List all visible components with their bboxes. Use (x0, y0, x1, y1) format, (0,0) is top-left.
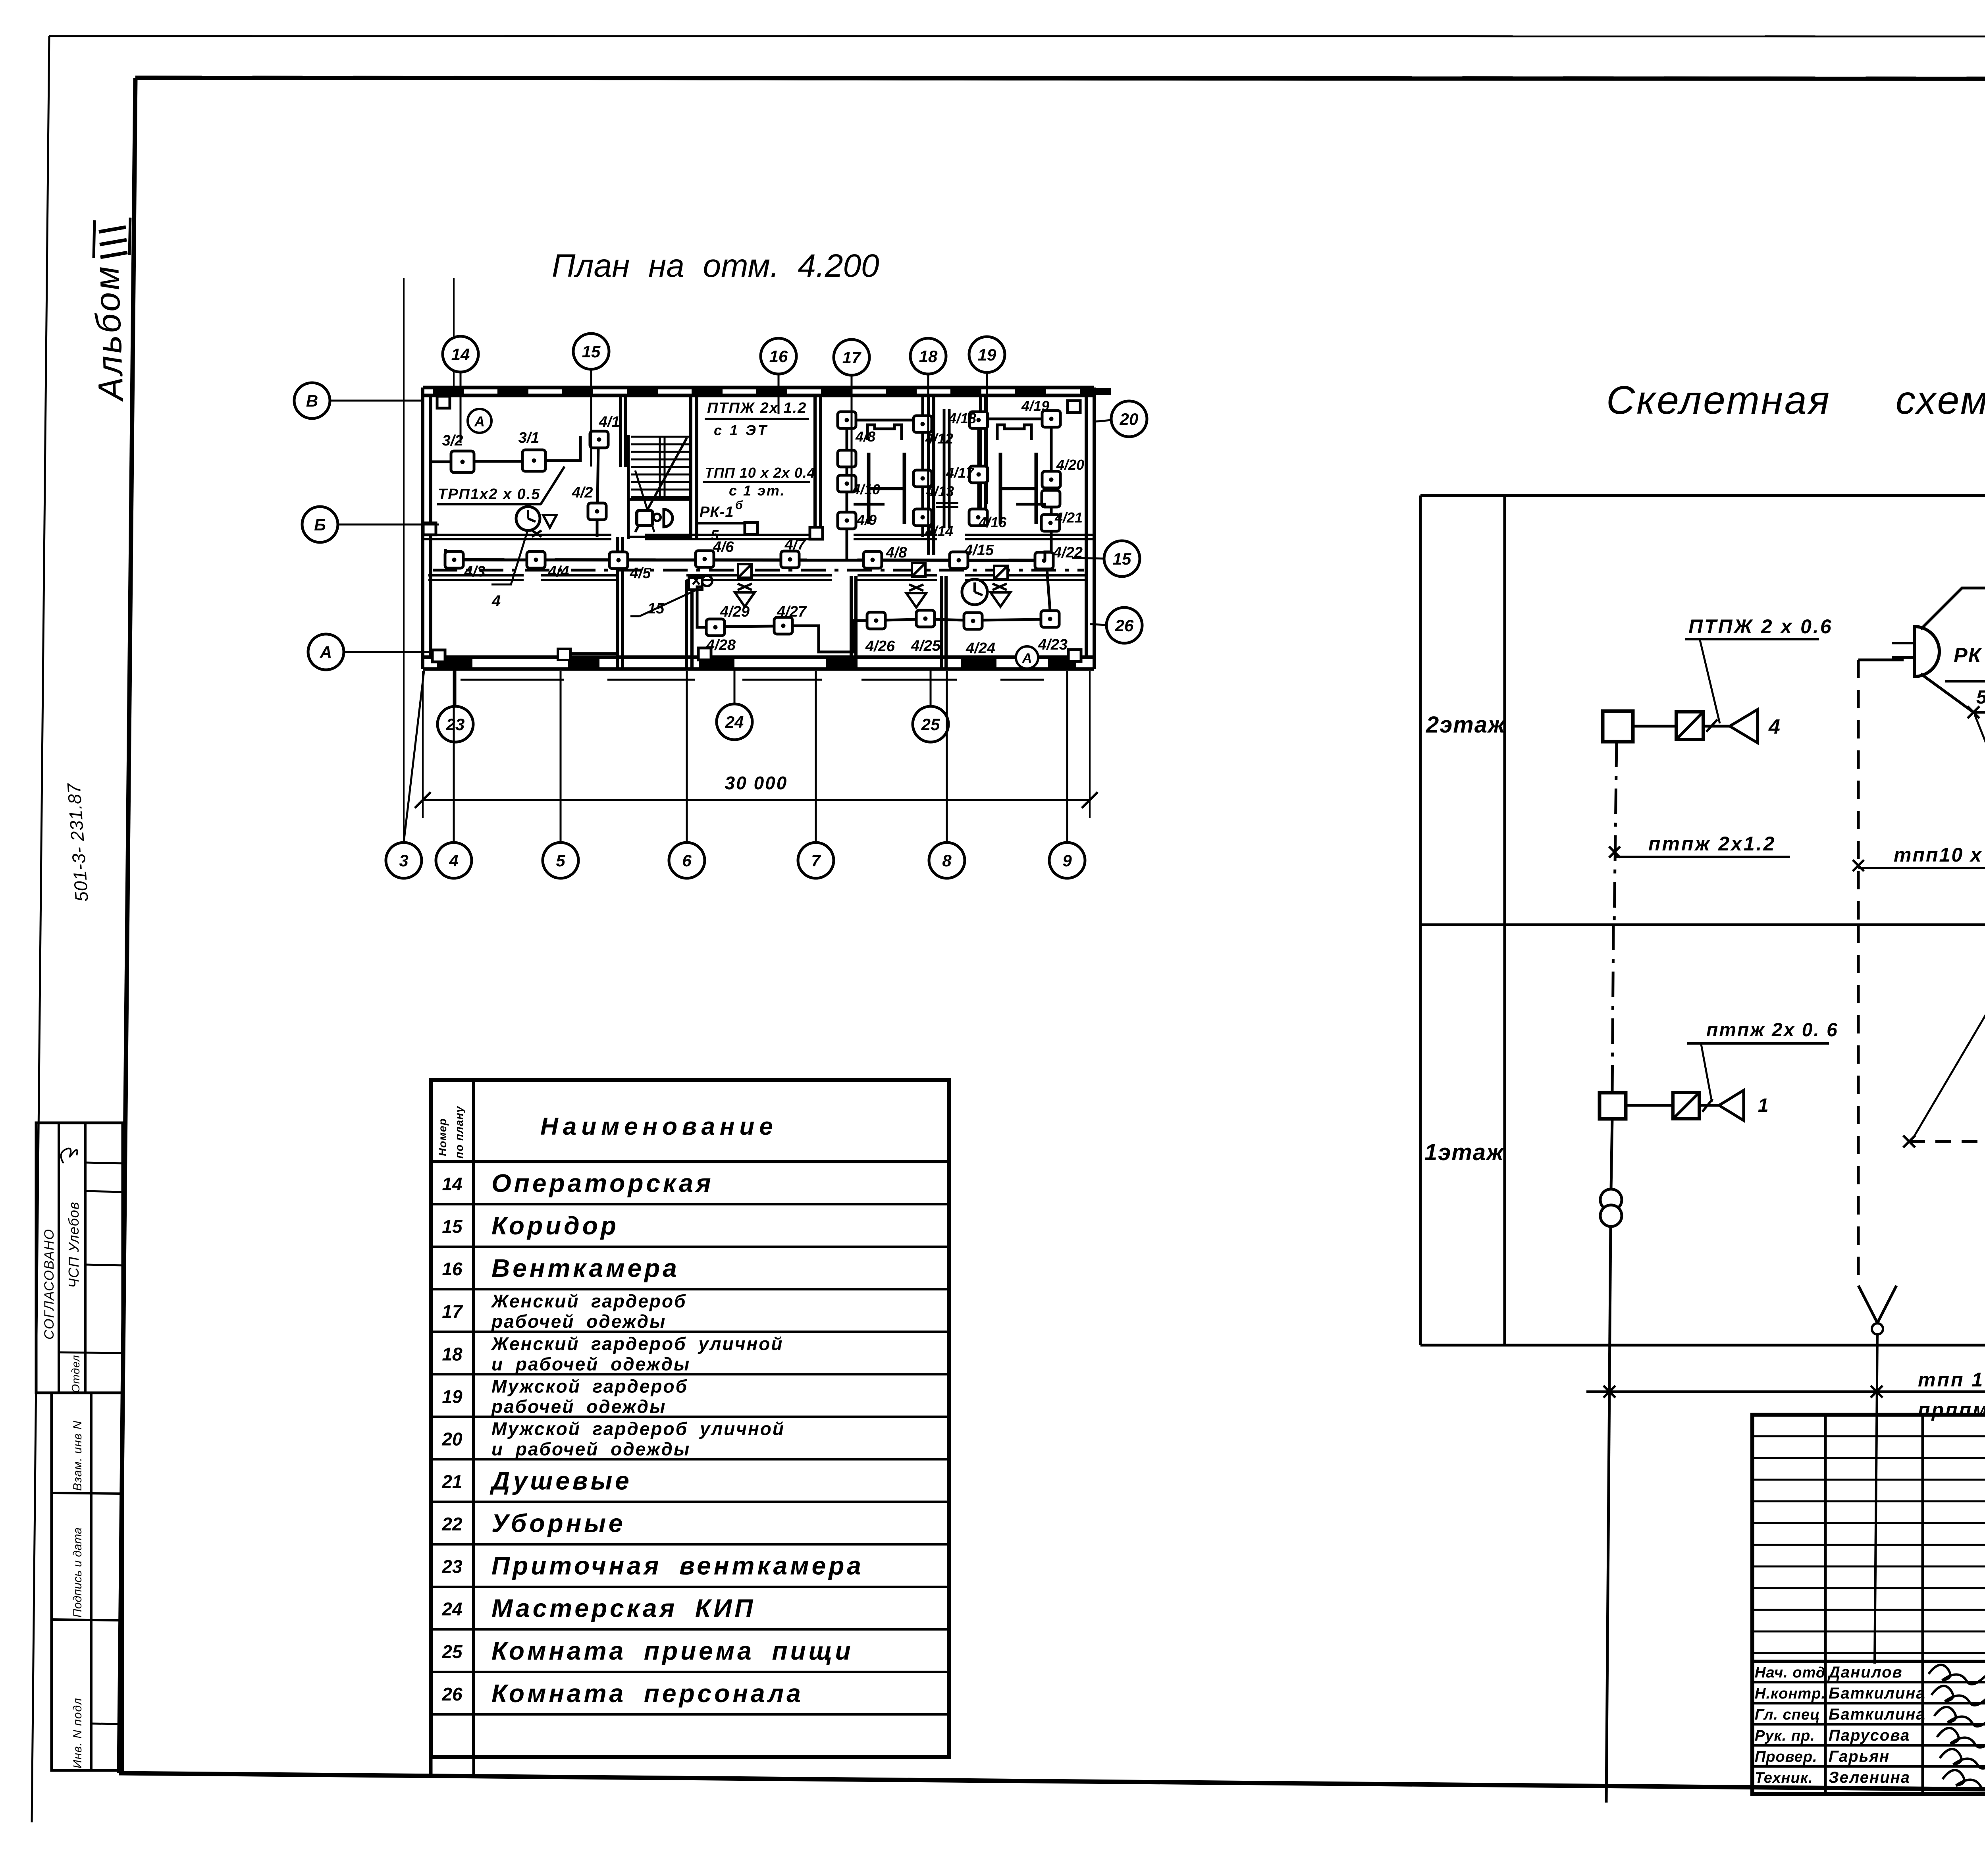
table row 15 (442, 1211, 619, 1240)
svg-text:30 000: 30 000 (725, 773, 788, 793)
wire 4/24-4/23 (982, 619, 1041, 620)
detector 4/23 (1041, 611, 1059, 627)
grid bubble 4 (436, 671, 472, 878)
riser dashdot floor2 (1614, 742, 1617, 925)
label ptpzh 2x1.2 (1614, 833, 1790, 857)
svg-text:Альбом: Альбом (87, 264, 131, 403)
personnel names (1755, 1664, 1926, 1786)
label PTPZh 2x1.2 s 1 ET (705, 400, 809, 438)
svg-text:РК - 1: РК - 1 (1954, 644, 1985, 667)
detector 4/3 (445, 551, 463, 568)
svg-text:15: 15 (442, 1216, 463, 1237)
leader label 15 (630, 589, 699, 617)
svg-text:Рук. пр.: Рук. пр. (1755, 1728, 1815, 1744)
room19 riser wire (977, 427, 980, 510)
corridor wire (445, 560, 1053, 560)
table row 25 (441, 1637, 853, 1665)
riser dashed floor2 (1857, 660, 1860, 925)
svg-text:РК-1: РК-1 (700, 504, 734, 521)
horn under slashbox1 (735, 584, 755, 607)
table row 21 (441, 1466, 632, 1495)
detector 4/14 (913, 509, 932, 526)
scheme frame (1420, 496, 1985, 1345)
table row 17 (442, 1291, 686, 1332)
label PTPZh 2x0.6 floor2 (1685, 615, 1833, 723)
wire 4/23 up to corridor (1047, 569, 1050, 611)
link 17 top (856, 419, 920, 422)
terminal box floor2 (1603, 711, 1633, 742)
label tpp10x2x0.4 (1858, 844, 1985, 868)
room bubble 18 (910, 338, 946, 552)
svg-text:Инв. N подл: Инв. N подл (71, 1698, 84, 1768)
svg-text:4/8: 4/8 (886, 544, 908, 561)
wall junction square 7 (810, 527, 823, 539)
wire 4/25-4/24 (935, 619, 964, 620)
svg-text:4/7: 4/7 (784, 536, 807, 553)
lower stamp box (Inv/Podpis/Vzam) (52, 1393, 123, 1770)
svg-text:А: А (320, 643, 332, 661)
svg-text:рабочей одежды: рабочей одежды (491, 1396, 666, 1417)
personnel grid (1752, 1415, 1985, 1794)
detector 4/27 (774, 617, 792, 634)
svg-text:рабочей одежды: рабочей одежды (491, 1311, 666, 1332)
slash box floor2 (1676, 712, 1703, 740)
riser solid floor1 (1611, 1119, 1612, 1189)
plan outer wall left (423, 388, 431, 669)
svg-text:Отдел: Отдел (69, 1355, 82, 1393)
revision rows (1752, 1436, 1985, 1653)
svg-text:24: 24 (441, 1599, 462, 1620)
grid row A (308, 634, 433, 670)
table row 16 (442, 1254, 679, 1282)
wall room16/17 (813, 395, 817, 535)
svg-text:ПТПЖ 2 х 0.6: ПТПЖ 2 х 0.6 (1688, 615, 1833, 638)
wall room24 left (685, 580, 688, 669)
horn under slashbox2 (906, 584, 926, 607)
table row 14 (442, 1169, 713, 1197)
wall room18/19 (979, 395, 982, 526)
label RK-1b/5 (1945, 634, 1985, 708)
wire from 3/1 to wall (545, 436, 580, 461)
svg-text:Подпись и дата: Подпись и дата (71, 1527, 84, 1618)
junction slashbox 3 (994, 566, 1008, 579)
wall room14/15 (619, 395, 622, 467)
branch dashed to RK-1a (1909, 1140, 1985, 1143)
svg-text:4/21: 4/21 (1054, 509, 1083, 526)
svg-text:тпп 10 х 2 х 0. 4: тпп 10 х 2 х 0. 4 (1918, 1369, 1985, 1391)
clock symbol corridor right (962, 579, 987, 605)
svg-text:с 1 ЭТ: с 1 ЭТ (714, 422, 769, 438)
tick RK-1a branch (1903, 1136, 1915, 1147)
svg-text:схема: схема (1896, 378, 1985, 422)
svg-text:В: В (306, 391, 318, 410)
tick riser floor2 (1609, 846, 1620, 858)
corridor device 15 circle (689, 576, 712, 590)
room bubble 16 (761, 338, 796, 414)
box mid room20 (1042, 490, 1060, 507)
svg-text:4/6: 4/6 (713, 539, 734, 555)
svg-text:птпж 2х1.2: птпж 2х1.2 (1648, 833, 1776, 855)
grid bubble 6 (669, 671, 705, 878)
plan outer wall right (1086, 388, 1094, 669)
room20 riser wire (1050, 426, 1053, 516)
svg-text:Женский гардероб уличной: Женский гардероб уличной (491, 1333, 784, 1354)
svg-text:4/24: 4/24 (966, 640, 995, 657)
svg-text:17: 17 (442, 1301, 463, 1322)
svg-text:3/1: 3/1 (518, 430, 540, 446)
svg-text:3: 3 (399, 851, 408, 870)
detector 4/20 (1042, 471, 1060, 488)
title block outer (1752, 1415, 1985, 1794)
svg-text:Коридор: Коридор (491, 1211, 619, 1240)
table header Naimenovanie (436, 1106, 778, 1159)
svg-text:4/29: 4/29 (720, 603, 750, 620)
corridor dash-dot cable (433, 569, 1084, 572)
detector 3/1 (474, 460, 522, 463)
connector RK-1b (1858, 627, 1939, 677)
table row 18 (442, 1333, 783, 1374)
svg-text:4/27: 4/27 (777, 603, 807, 620)
vertical text Album III (87, 218, 131, 403)
room24 wire (697, 587, 706, 627)
svg-text:Нач. отд: Нач. отд (1755, 1664, 1825, 1681)
wall junction square 3 (432, 650, 445, 662)
svg-text:Н.контр.: Н.контр. (1755, 1685, 1826, 1702)
wire 4/26-4/25 (885, 619, 916, 620)
svg-text:14: 14 (451, 345, 470, 364)
leader to label 4 (491, 529, 528, 610)
svg-text:18: 18 (442, 1344, 463, 1364)
room17 riser wire (846, 427, 848, 513)
riser below circles (1606, 1226, 1611, 1803)
svg-text:прппм 2 х 1.2: прппм 2 х 1.2 (1918, 1399, 1985, 1421)
svg-text:ТПП 10 х 2х 0.4: ТПП 10 х 2х 0.4 (705, 465, 815, 481)
svg-text:и рабочей одежды: и рабочей одежды (491, 1438, 690, 1459)
signatures (1929, 1665, 1985, 1789)
svg-text:План на отм. 4.200: План на отм. 4.200 (552, 248, 879, 284)
svg-text:Женский гардероб: Женский гардероб (491, 1291, 687, 1311)
svg-text:Уборные: Уборные (491, 1509, 625, 1538)
svg-text:16: 16 (769, 347, 788, 366)
svg-text:21: 21 (441, 1471, 462, 1492)
V junction to pit (1858, 1286, 1896, 1664)
grid column line 4 (453, 278, 455, 388)
junction slashbox 2 (912, 563, 925, 576)
svg-text:Комната персонала: Комната персонала (491, 1679, 804, 1708)
wall room17/18b (943, 409, 946, 528)
room bubble 24 (717, 669, 752, 740)
label TRP1x2x0.5 (437, 467, 565, 504)
svg-text:4/17: 4/17 (946, 465, 975, 481)
svg-text:15: 15 (1113, 549, 1131, 568)
room bubble 20 (1094, 401, 1147, 437)
svg-text:4/20: 4/20 (1056, 457, 1084, 473)
room bubble 23 (437, 669, 473, 742)
svg-text:4/19: 4/19 (1021, 398, 1049, 414)
approval stamp box (Soglasovano) (36, 1123, 123, 1393)
svg-text:б: б (735, 499, 743, 512)
svg-text:Б: Б (314, 515, 326, 534)
svg-text:Мужской гардероб: Мужской гардероб (491, 1376, 688, 1396)
detector 4/28 (706, 619, 725, 636)
svg-text:тпп10 х 2 х 0. 4: тпп10 х 2 х 0. 4 (1894, 844, 1985, 866)
wall junction square 6 (745, 523, 757, 534)
inner frame left (119, 78, 135, 1773)
bottom feeder line (1586, 1390, 1985, 1393)
sink bars 18 (936, 503, 958, 507)
box mid room17 (838, 450, 856, 467)
svg-text:4/26: 4/26 (865, 638, 895, 655)
grid bubble 3 (386, 671, 424, 878)
svg-text:6: 6 (682, 851, 692, 870)
detector 4/8 room17 (838, 412, 856, 428)
outer border top (49, 36, 1985, 37)
svg-text:4/2: 4/2 (572, 484, 593, 501)
svg-text:1этаж: 1этаж (1424, 1139, 1505, 1165)
svg-text:Баткилина: Баткилина (1829, 1685, 1926, 1702)
svg-text:и рабочей одежды: и рабочей одежды (491, 1353, 690, 1374)
grid row B(be) (302, 507, 439, 542)
svg-text:4/1: 4/1 (599, 414, 620, 430)
svg-text:4/13: 4/13 (926, 483, 954, 499)
svg-text:4/23: 4/23 (1038, 636, 1068, 653)
grid row B(ve) (294, 383, 423, 418)
room name table (431, 1080, 949, 1757)
svg-text:8: 8 (942, 851, 952, 870)
branch to 3/1 (1921, 674, 1985, 712)
svg-text:4/3: 4/3 (464, 563, 486, 580)
svg-text:4/5: 4/5 (630, 565, 651, 582)
svg-text:Гарьян: Гарьян (1829, 1748, 1890, 1765)
detector 4/21 (1041, 515, 1060, 531)
detector 4/25 (916, 610, 935, 627)
table row 22 (441, 1509, 625, 1538)
svg-text:СОГЛАСОВАНО: СОГЛАСОВАНО (42, 1228, 57, 1340)
wire box to slashbox floor2 (1633, 725, 1676, 728)
tick branch 3/1 (1968, 706, 1979, 718)
svg-text:15: 15 (582, 342, 601, 361)
svg-text:4: 4 (491, 592, 501, 610)
label tpp 1x2x0.4 (1913, 986, 1985, 1139)
stair wall right (689, 395, 692, 540)
branch to 4/1 (1921, 588, 1985, 629)
svg-text:19: 19 (442, 1386, 463, 1407)
wall junction square 5 (423, 523, 436, 535)
wall junction square 1 (437, 396, 450, 408)
room bubble 15 (573, 334, 609, 467)
room bubble 26 (1090, 607, 1142, 643)
room bubble 15 right (1072, 541, 1140, 576)
svg-text:Душевые: Душевые (490, 1466, 632, 1495)
plan outer wall top (423, 388, 1111, 395)
staircase (628, 437, 692, 537)
label TPP 10x2x0.4 s 1 et (703, 465, 815, 499)
detector 4/5 (609, 552, 628, 569)
wall room24/25 (850, 576, 853, 669)
svg-text:26: 26 (441, 1684, 463, 1704)
detector 4/10 (838, 475, 856, 492)
svg-text:20: 20 (441, 1429, 463, 1449)
svg-text:4/8: 4/8 (855, 428, 875, 445)
table row 20 (441, 1418, 785, 1459)
svg-text:4/15: 4/15 (964, 542, 994, 559)
detector 4/4 (527, 551, 545, 568)
detector 4/13 (913, 470, 932, 487)
wire 4/1 to 4/2 (597, 448, 598, 503)
wire 4/28 to 4/27 (725, 626, 774, 627)
grid bubble 8 (929, 671, 965, 878)
riser dashed floor1 (1857, 925, 1860, 1286)
room23 device wire (558, 649, 618, 660)
wire U to room25 (792, 621, 867, 652)
inner frame bottom (119, 1773, 1985, 1794)
tick on bottom line left (1603, 1386, 1615, 1398)
detector 4/15 (950, 552, 968, 569)
svg-text:Наименование: Наименование (540, 1113, 778, 1140)
label ptpzh 2x0.6 floor1 (1687, 1020, 1839, 1102)
wall room23/24 (616, 537, 619, 669)
grid mark A in room 14 (468, 409, 491, 433)
detector 4/1 (590, 431, 608, 448)
stall symbols room17 (854, 425, 904, 524)
wall room17/18a (927, 395, 930, 555)
svg-text:ЧСП Улебов: ЧСП Улебов (66, 1202, 82, 1288)
svg-text:ТРП1х2 х 0.5: ТРП1х2 х 0.5 (438, 486, 540, 503)
svg-text:Номер: Номер (436, 1118, 449, 1156)
tick floor1 (1702, 1099, 1713, 1112)
svg-text:5: 5 (556, 851, 565, 870)
wire 4/2 down (596, 520, 599, 537)
wire box to slashbox floor1 (1626, 1104, 1673, 1107)
svg-text:Мужской гардероб уличной: Мужской гардероб уличной (491, 1418, 785, 1439)
svg-text:Данилов: Данилов (1827, 1664, 1903, 1681)
tick floor2 (1706, 719, 1717, 732)
svg-text:Зеленина: Зеленина (1829, 1769, 1910, 1786)
svg-text:по плану: по плану (453, 1106, 465, 1159)
horn floor2 (1703, 710, 1780, 743)
detector 4/18 (969, 412, 988, 428)
clock symbol room14 (516, 507, 540, 530)
svg-text:Техник.: Техник. (1755, 1770, 1813, 1786)
wall room25/26 (940, 576, 943, 669)
table foot stubs (429, 1757, 433, 1775)
plan outer wall bottom (423, 657, 1094, 680)
title block columns upper (1752, 1415, 1985, 1794)
svg-text:20: 20 (1120, 410, 1139, 428)
label TRP 1x2x0.5 floor2 (1975, 715, 1985, 765)
terminal box floor1 (1600, 1093, 1626, 1119)
svg-text:26: 26 (1115, 616, 1134, 635)
inner frame top (135, 78, 1985, 79)
wall junction square 2 (1068, 401, 1080, 413)
svg-text:7: 7 (811, 851, 821, 870)
riser dashdot floor1 top (1612, 925, 1613, 1093)
grid column line 3 (403, 278, 405, 842)
detector 4/24 (964, 613, 982, 629)
table row 26 (441, 1679, 803, 1708)
svg-text:Приточная венткамера: Приточная венткамера (491, 1552, 864, 1580)
table row 19 (442, 1376, 688, 1417)
svg-text:23: 23 (441, 1556, 463, 1577)
dimension line 30000 (415, 671, 1098, 818)
room bubble 19 (969, 337, 1005, 504)
svg-text:4/25: 4/25 (911, 638, 941, 654)
svg-text:Баткилина: Баткилина (1829, 1706, 1926, 1723)
room bubble 25 (913, 669, 948, 742)
tick symbol room14 (532, 530, 542, 537)
horn floor1 (1699, 1090, 1769, 1120)
grid bubble 7 (798, 671, 834, 878)
svg-text:Взам. инв N: Взам. инв N (71, 1421, 84, 1491)
wall junction square 4 (1068, 650, 1081, 661)
svg-text:18: 18 (919, 347, 938, 366)
svg-text:Венткамера: Венткамера (491, 1254, 680, 1282)
svg-text:17: 17 (842, 348, 861, 367)
detector 4/17 (969, 466, 988, 483)
grid bubble 9 (1049, 671, 1085, 878)
slash box floor1 (1673, 1093, 1699, 1119)
horn symbol room14 (543, 515, 557, 528)
svg-text:Скелетная: Скелетная (1606, 378, 1831, 422)
svg-text:Операторская: Операторская (491, 1169, 714, 1197)
corridor branch stubs (444, 549, 447, 560)
junction slashbox 1 (738, 564, 752, 578)
svg-text:Парусова: Парусова (1829, 1727, 1910, 1744)
stall symbols room19 (997, 425, 1046, 524)
detector 4/26 (867, 612, 885, 629)
detector 4/22 (1035, 552, 1053, 569)
svg-text:4/16: 4/16 (978, 514, 1007, 530)
svg-text:14: 14 (442, 1174, 462, 1194)
label RK-1b/5 on plan (697, 499, 745, 543)
svg-text:А: А (474, 413, 485, 430)
svg-text:4/9: 4/9 (856, 512, 877, 528)
svg-text:15: 15 (648, 600, 665, 617)
svg-text:2этаж: 2этаж (1426, 712, 1506, 738)
svg-text:9: 9 (1062, 851, 1072, 870)
detector 4/6 (696, 551, 714, 567)
table row 24 (441, 1594, 755, 1623)
svg-text:16: 16 (442, 1259, 463, 1279)
detector 4/7 (781, 551, 799, 568)
svg-text:с 1 эт.: с 1 эт. (729, 482, 785, 499)
svg-text:24: 24 (725, 713, 744, 731)
corridor lower wall (428, 575, 1086, 580)
horn under slashbox3 (991, 584, 1010, 607)
svg-text:птпж 2х 0. 6: птпж 2х 0. 6 (1706, 1020, 1839, 1041)
svg-text:Провер.: Провер. (1755, 1749, 1817, 1765)
table row 23 (441, 1552, 863, 1580)
svg-text:4: 4 (1768, 715, 1780, 738)
svg-text:22: 22 (441, 1514, 463, 1535)
detector 4/8 corridor (863, 551, 882, 568)
stair wall left (627, 435, 630, 539)
detector 3/2 (431, 461, 451, 463)
corridor upper wall (423, 535, 1094, 539)
room bubble 14 (443, 336, 478, 443)
stair landing connector box (637, 509, 673, 527)
svg-text:Комната приема пищи: Комната приема пищи (491, 1637, 854, 1665)
svg-text:А: А (1022, 651, 1032, 666)
svg-text:5: 5 (1976, 687, 1985, 708)
room18 riser wire (921, 431, 924, 510)
svg-text:4/4: 4/4 (548, 563, 569, 580)
grid bubble 5 (543, 671, 578, 878)
svg-text:Мастерская КИП: Мастерская КИП (491, 1594, 755, 1623)
detector 4/16 (969, 509, 987, 526)
svg-text:4/18: 4/18 (948, 410, 976, 426)
svg-text:25: 25 (441, 1641, 463, 1662)
